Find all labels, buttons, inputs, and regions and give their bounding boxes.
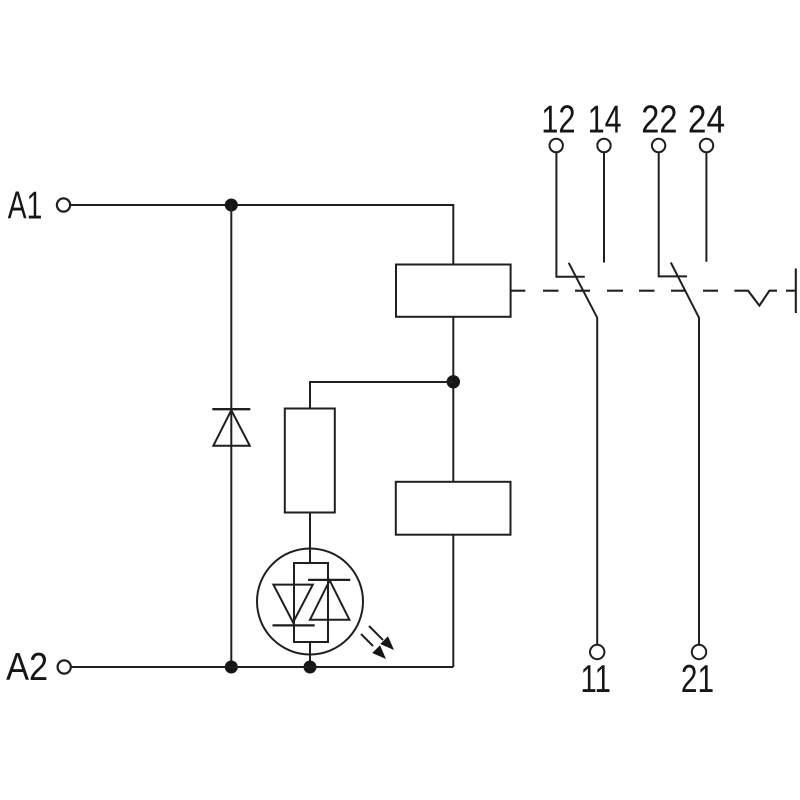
LED right diode triangle [310,580,349,619]
diode V1 triangle [213,410,250,446]
svg-text:11: 11 [581,658,611,701]
wire diode branch [230,205,232,667]
coil K1 box [396,265,511,317]
resistor R1 [285,409,335,513]
svg-text:24: 24 [688,99,725,142]
LED emission arrow 2 [361,634,373,646]
wire 24 NO contact [705,152,707,262]
switch blade contact 2 [671,263,699,645]
linkage dash segments [511,290,526,292]
svg-text:22: 22 [641,99,677,142]
terminal 14 [597,139,610,152]
node diode/A2 [225,661,238,674]
wire A1 to coil K1 [71,205,454,265]
wire A2 line [71,666,453,668]
svg-text:A2: A2 [6,646,48,689]
wire coil K1b to A2 line [452,535,454,667]
wire 14 NO contact [603,152,605,263]
LED emission arrow 1 [369,626,383,640]
LED left diode triangle [273,585,312,623]
mechanical linkage dashed line [511,269,796,314]
wire LED to A2 line [309,642,311,667]
wire coil K1 to node [452,317,454,482]
svg-text:21: 21 [681,658,714,701]
svg-text:A1: A1 [8,185,43,228]
terminal A2 [58,660,71,673]
svg-text:14: 14 [588,99,622,142]
LED right diode bar [308,579,350,581]
linkage end bar [795,269,797,314]
node junction A1/diode [225,199,238,212]
node junction resistor/coil [447,375,460,388]
terminal 11 [590,645,604,659]
svg-text:12: 12 [541,99,575,142]
terminal 12 [550,139,563,152]
wire resistor to LED [309,513,311,564]
terminal 24 [700,139,713,152]
diode V1 cathode bar [212,408,250,410]
LED circle [257,549,363,655]
wire 12 NC seat [556,152,584,277]
node LED/A2 [304,661,317,674]
wire node to resistor R1 [310,382,453,409]
terminal A1 [57,198,70,211]
terminal 21 [692,645,706,659]
LED inner rect [294,563,328,642]
switch blade contact 1 [569,263,598,645]
terminal 22 [652,139,665,152]
wire 22 NC seat [659,152,687,276]
linkage V notch [734,291,777,306]
LED left diode bar [273,624,315,626]
coil K1b box [396,482,511,535]
